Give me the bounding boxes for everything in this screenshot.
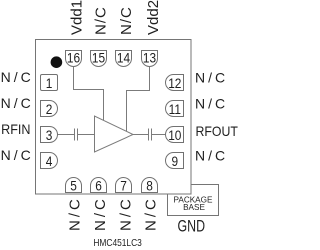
svg-text:4: 4 (46, 153, 53, 169)
svg-text:7: 7 (120, 178, 127, 194)
svg-text:N/C: N/C (93, 6, 110, 35)
svg-text:Vdd1: Vdd1 (69, 0, 86, 35)
svg-text:RFIN: RFIN (1, 122, 30, 138)
svg-text:N/C: N/C (195, 70, 228, 86)
svg-text:GND: GND (178, 218, 205, 236)
svg-text:N/C: N/C (92, 196, 109, 231)
svg-text:1: 1 (46, 75, 53, 91)
svg-text:8: 8 (146, 178, 153, 194)
svg-text:HMC451LC3: HMC451LC3 (93, 237, 141, 248)
svg-text:3: 3 (46, 127, 53, 143)
svg-text:6: 6 (95, 178, 102, 194)
svg-text:N/C: N/C (195, 148, 228, 164)
svg-text:10: 10 (168, 127, 181, 143)
svg-text:N/C: N/C (143, 196, 160, 231)
svg-text:N/C: N/C (117, 196, 134, 231)
svg-text:N/C: N/C (118, 6, 135, 35)
svg-text:11: 11 (169, 101, 181, 117)
svg-text:13: 13 (143, 50, 156, 66)
svg-text:Vdd2: Vdd2 (145, 0, 162, 35)
svg-text:15: 15 (92, 50, 105, 66)
svg-text:16: 16 (67, 50, 80, 66)
svg-text:5: 5 (70, 178, 77, 194)
svg-text:9: 9 (171, 153, 178, 169)
svg-text:14: 14 (117, 50, 130, 66)
svg-text:N/C: N/C (195, 96, 228, 112)
svg-text:N/C: N/C (1, 147, 34, 163)
svg-text:N/C: N/C (1, 69, 34, 85)
svg-text:N/C: N/C (67, 196, 84, 231)
svg-text:12: 12 (168, 75, 181, 91)
svg-text:BASE: BASE (183, 203, 205, 212)
svg-text:RFOUT: RFOUT (196, 123, 238, 139)
svg-text:2: 2 (46, 101, 53, 117)
svg-text:N/C: N/C (1, 95, 34, 111)
